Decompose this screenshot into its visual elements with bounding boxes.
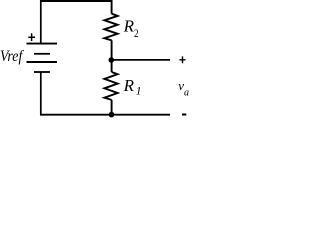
svg-text:Vref: Vref [0, 48, 25, 65]
resistor R1 zigzag [104, 72, 117, 100]
junction dot bottom node [109, 112, 115, 118]
svg-text:a: a [184, 88, 189, 99]
battery Vref plate long top (+) [27, 43, 58, 45]
wire left vertical from top rail to battery [40, 0, 42, 44]
wire mid node to R1 [111, 60, 113, 72]
minus sign right bottom terminal [182, 114, 186, 116]
junction dot mid node [109, 57, 115, 63]
svg-text:R: R [123, 76, 135, 95]
svg-text:2: 2 [134, 28, 139, 40]
plus sign right output terminal [179, 56, 185, 63]
battery plate short [34, 53, 50, 55]
wire R2 to mid node [111, 40, 113, 60]
battery plate short bottom (-) [34, 71, 50, 73]
resistor R2 zigzag [104, 14, 117, 41]
wire right branch top [111, 0, 113, 14]
svg-text:R: R [123, 16, 135, 35]
wire mid node to right terminal [111, 59, 170, 61]
svg-text:1: 1 [136, 83, 142, 97]
wire bottom rail [40, 114, 170, 116]
plus sign at battery top [28, 33, 35, 41]
wire top rail [40, 0, 112, 2]
battery plate long [27, 61, 58, 63]
wire R1 to bottom rail [111, 100, 113, 115]
wire battery bottom vertical [40, 73, 42, 115]
